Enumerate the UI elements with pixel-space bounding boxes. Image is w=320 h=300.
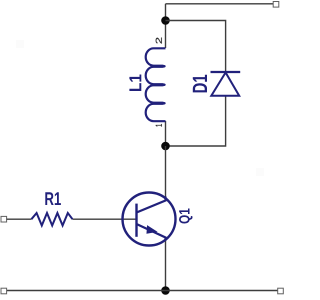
wire from D1 anode down and left to middle junction — [166, 97, 226, 147]
pin number 2 (L1 top) — [156, 38, 162, 44]
transistor Q1 circle — [123, 193, 176, 246]
wire R1 to Q1 base — [73, 218, 137, 220]
terminal square bottom-left — [1, 288, 7, 294]
transistor Q1 collector stroke — [137, 197, 166, 213]
label Q1 — [179, 209, 193, 224]
wire from L1 bottom to middle junction — [165, 121, 167, 146]
transistor Q1 base bar — [135, 204, 137, 237]
node junction bottom — [161, 286, 170, 295]
node junction middle — [161, 142, 170, 151]
wire left terminal to R1 — [7, 218, 32, 220]
transistor Q1 emitter stroke — [137, 224, 166, 240]
diode D1 — [211, 72, 241, 96]
pin number 1 (L1 bottom) — [156, 124, 162, 126]
label R1 — [45, 192, 61, 205]
wire from top junction to D1 cathode — [166, 21, 226, 72]
resistor R1 — [31, 213, 72, 226]
wire top rail — [166, 3, 274, 5]
label L1 — [129, 75, 141, 92]
label D1 — [193, 75, 207, 93]
inductor L1 — [146, 48, 166, 121]
transistor Q1 emitter arrow — [147, 226, 156, 233]
wire from top rail down to L1 top — [165, 4, 167, 48]
wire middle junction to Q1 collector — [165, 146, 167, 199]
terminal square top-right — [273, 2, 279, 8]
wire bottom rail — [7, 290, 278, 292]
terminal square bottom-right — [278, 288, 284, 294]
wire Q1 emitter to bottom junction — [165, 239, 167, 291]
terminal square left (base input) — [1, 216, 7, 222]
node junction top (collector/L1/D1 net) — [161, 16, 170, 25]
